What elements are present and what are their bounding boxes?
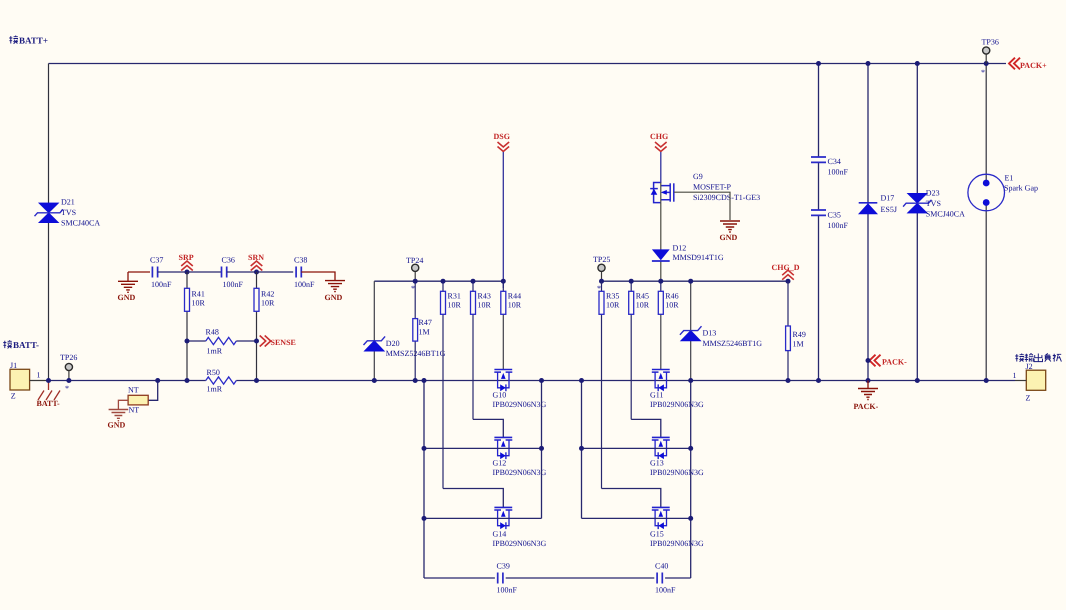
diode D12 MMSD914T1G [660, 203, 662, 282]
ground GND at G9 gate [720, 221, 740, 232]
thermistor NT [148, 381, 157, 401]
svg-text:100nF: 100nF [223, 280, 244, 289]
svg-text:GND: GND [108, 421, 126, 430]
svg-text:IPB029N06N3G: IPB029N06N3G [493, 400, 547, 409]
svg-text:R49: R49 [793, 330, 806, 339]
junction TP26/bus [66, 378, 71, 383]
junction R49/bus [786, 378, 791, 383]
wire: CHG bank right vertical [690, 381, 692, 579]
node PACK- (power symbol) [867, 381, 869, 389]
svg-text:R42: R42 [261, 290, 274, 299]
svg-text:G10: G10 [493, 391, 507, 400]
wire C37 to SRP [158, 271, 187, 273]
junction G13 row left [579, 446, 584, 451]
svg-text:Z: Z [1026, 394, 1031, 403]
diode D17 ES5J [867, 64, 869, 381]
svg-text:GND: GND [325, 293, 343, 302]
resistor R46 10R [660, 281, 662, 291]
junction R41 bottom/bus [185, 378, 190, 383]
junction TP24/rail [413, 279, 418, 284]
svg-text:TP24: TP24 [406, 256, 423, 265]
svg-text:Si2309CDS-T1-GE3: Si2309CDS-T1-GE3 [693, 193, 760, 202]
wire: G12 row [424, 447, 542, 449]
resistor R43 10R [472, 281, 474, 291]
resistor R42 10R [256, 272, 258, 381]
connector J2 [1026, 370, 1045, 390]
svg-text:NT: NT [129, 406, 140, 415]
wire DSG down to gate rail [502, 152, 504, 288]
svg-text:D12: D12 [673, 244, 687, 253]
pin 1 of J1 [30, 380, 49, 382]
junction G12 row right [539, 446, 544, 451]
svg-text:TVS: TVS [61, 208, 76, 217]
svg-text:PACK+: PACK+ [1020, 61, 1047, 70]
svg-text:R31: R31 [448, 292, 461, 301]
capacitor C39 100nF [498, 573, 503, 584]
diode D13 MMSZ5246BT1G zener [690, 281, 692, 380]
svg-text:C39: C39 [497, 562, 510, 571]
svg-text:GND: GND [720, 233, 738, 242]
junction R47/bus [413, 378, 418, 383]
svg-text:C35: C35 [828, 211, 841, 220]
svg-text:GND: GND [118, 293, 136, 302]
wire: DSG gate rail (y=281.2) [374, 280, 503, 282]
svg-text:100nF: 100nF [828, 221, 849, 230]
node PACK- (port) [870, 355, 881, 367]
svg-text:*: * [981, 68, 985, 77]
svg-text:IPB029N06N3G: IPB029N06N3G [493, 468, 547, 477]
svg-text:R48: R48 [206, 328, 219, 337]
connector J1 [10, 369, 30, 390]
svg-text:CHG: CHG [650, 132, 668, 141]
junction DSG-bank source/bus [539, 378, 544, 383]
junction G12 row left [422, 446, 427, 451]
wire: CHG bank left vertical [581, 381, 583, 519]
junction G14 row left [422, 516, 427, 521]
svg-text:PACK-: PACK- [854, 402, 879, 411]
junction CHG-bank drain/bus [579, 378, 584, 383]
diode D23 TVS SMCJ40CA [916, 64, 918, 381]
svg-text:MMSZ5246BT1G: MMSZ5246BT1G [703, 339, 763, 348]
wire C36 to SRN [227, 271, 257, 273]
wire G9 gate to GND [674, 192, 730, 220]
svg-text:1mR: 1mR [207, 385, 223, 394]
capacitor C38 100nF [296, 267, 301, 278]
resistor R47 1M [414, 281, 416, 380]
capacitor C37 100nF [152, 267, 157, 278]
wire: DSG bank right vertical [541, 381, 543, 519]
diode D21 TVS [35, 203, 63, 223]
capacitor C36 100nF [222, 267, 227, 278]
testpoint TP26 [68, 371, 70, 381]
svg-text:Spark Gap: Spark Gap [1004, 184, 1038, 193]
net label 接BATT- [3, 340, 12, 348]
svg-text:*: * [411, 284, 415, 293]
svg-text:R41: R41 [192, 290, 205, 299]
svg-text:10R: 10R [636, 301, 650, 310]
diode D20 MMSZ5246BT1G zener [373, 281, 375, 380]
svg-text:10R: 10R [192, 298, 206, 307]
net label 接BATT+ [9, 36, 18, 44]
svg-text:J2: J2 [1026, 362, 1033, 371]
resistor R50 1mR (in bus) [206, 377, 237, 384]
junction J1/D21/bus [46, 378, 51, 383]
wire: G14 row [424, 517, 542, 519]
svg-text:DSG: DSG [494, 132, 510, 141]
junction at R48 right [254, 339, 259, 344]
svg-text:TVS: TVS [926, 199, 941, 208]
capacitor C35 100nF [811, 210, 826, 215]
node SRP [181, 261, 193, 271]
capacitor C40 100nF [657, 573, 662, 584]
svg-text:R43: R43 [478, 292, 491, 301]
svg-text:IPB029N06N3G: IPB029N06N3G [493, 539, 547, 548]
wire: G15 row [582, 517, 691, 519]
transistor G13 IPB029N06N3G [652, 437, 670, 459]
junction R42/bus [254, 378, 259, 383]
svg-text:SMCJ40CA: SMCJ40CA [926, 210, 965, 219]
svg-text:10R: 10R [448, 301, 462, 310]
resistor R48 1mR (sense) [187, 340, 257, 342]
resistor R35 10R [601, 281, 603, 291]
svg-text:10R: 10R [261, 298, 275, 307]
svg-text:R46: R46 [665, 292, 678, 301]
svg-text:R45: R45 [636, 292, 649, 301]
wire: CHG gate rail (y=281.2) [602, 280, 789, 282]
resistor R49 1M [787, 281, 789, 380]
svg-text:*: * [65, 384, 69, 393]
junction at R48 left [185, 339, 190, 344]
svg-text:1M: 1M [419, 328, 430, 337]
wire: main bus BATT- / PACK- (y=380.5) [49, 380, 1016, 382]
svg-text:C40: C40 [655, 562, 668, 571]
wire R45 to G13 gate [631, 419, 661, 437]
ground GND at NT [118, 400, 128, 409]
svg-text:R44: R44 [508, 292, 521, 301]
wire: DSG bank left vertical [423, 381, 425, 579]
svg-text:TP36: TP36 [982, 38, 999, 47]
svg-text:IPB029N06N3G: IPB029N06N3G [650, 539, 704, 548]
svg-text:100nF: 100nF [828, 168, 849, 177]
resistor R31 10R [442, 281, 444, 291]
svg-text:100nF: 100nF [151, 280, 172, 289]
node SENSE [260, 336, 271, 347]
svg-text:D21: D21 [61, 198, 75, 207]
transistor G10 IPB029N06N3G [494, 370, 512, 392]
wire R43 to G12 gate [473, 419, 503, 437]
svg-text:1: 1 [1013, 371, 1017, 380]
svg-text:Z: Z [11, 392, 16, 401]
testpoint TP25 [601, 272, 603, 282]
svg-text:C37: C37 [150, 256, 163, 265]
svg-text:SMCJ40CA: SMCJ40CA [61, 219, 100, 228]
junction NT/bus [155, 378, 160, 383]
junction DSG-bank drain/bus [422, 378, 427, 383]
resistor R41 10R [186, 272, 188, 381]
svg-text:G9: G9 [693, 172, 703, 181]
svg-text:IPB029N06N3G: IPB029N06N3G [650, 468, 704, 477]
junction G13 row right [688, 446, 693, 451]
wire R35 to G15 gate [602, 489, 661, 508]
svg-text:CHG_D: CHG_D [772, 263, 800, 272]
ground GND left of C37 [127, 272, 129, 281]
ground GND right of C38 [301, 272, 335, 281]
svg-text:NT: NT [128, 386, 139, 395]
svg-text:E1: E1 [1005, 174, 1014, 183]
svg-text:MMSD914T1G: MMSD914T1G [673, 253, 724, 262]
svg-text:100nF: 100nF [294, 280, 315, 289]
svg-text:D13: D13 [703, 329, 717, 338]
svg-text:D17: D17 [881, 194, 895, 203]
node BATT- power symbol [38, 381, 60, 401]
wire: top PACK+ rail [49, 63, 1007, 65]
svg-text:BATT-: BATT- [13, 340, 39, 350]
transistor G14 IPB029N06N3G [494, 507, 512, 529]
svg-text:10R: 10R [478, 301, 492, 310]
svg-text:10R: 10R [508, 301, 522, 310]
wire R31 to G14 gate [443, 489, 503, 508]
transistor G12 IPB029N06N3G [494, 437, 512, 459]
svg-text:G13: G13 [650, 459, 664, 468]
svg-text:SRN: SRN [248, 253, 264, 262]
testpoint TP36 [985, 55, 987, 64]
wire SRN to C38 [257, 271, 294, 273]
svg-text:G12: G12 [493, 459, 507, 468]
transistor G11 IPB029N06N3G [652, 370, 670, 392]
junction G15 row right [688, 516, 693, 521]
node SRN [251, 261, 263, 271]
capacitor C34 100nF [818, 64, 820, 381]
svg-text:10R: 10R [606, 301, 620, 310]
svg-text:D20: D20 [386, 339, 400, 348]
svg-text:MOSFET-P: MOSFET-P [693, 182, 731, 191]
svg-text:1: 1 [37, 371, 41, 380]
wire: G13 row [582, 447, 691, 449]
transistor G15 IPB029N06N3G [652, 507, 670, 529]
svg-text:D23: D23 [926, 189, 940, 198]
svg-text:ES5J: ES5J [881, 205, 897, 214]
resistor R45 10R [630, 281, 632, 291]
svg-text:100nF: 100nF [497, 586, 518, 595]
junction D20/bus [372, 378, 377, 383]
svg-text:BATT+: BATT+ [19, 36, 48, 46]
svg-text:1M: 1M [793, 339, 804, 348]
svg-text:R50: R50 [207, 368, 220, 377]
wire CHG down to G9 [660, 152, 662, 183]
net label 接输出负极 [1015, 354, 1024, 362]
pin 1 of J2 [1015, 380, 1026, 382]
svg-text:SENSE: SENSE [271, 338, 296, 347]
svg-text:G11: G11 [650, 391, 663, 400]
svg-text:PACK-: PACK- [882, 358, 907, 367]
svg-text:J1: J1 [10, 361, 17, 370]
spark gap E1 [985, 64, 987, 381]
svg-text:10R: 10R [665, 301, 679, 310]
svg-text:C38: C38 [294, 256, 307, 265]
wire SRP to C36 [187, 271, 221, 273]
svg-text:100nF: 100nF [655, 586, 676, 595]
svg-text:1mR: 1mR [207, 347, 223, 356]
svg-text:TP26: TP26 [60, 353, 77, 362]
node PACK+ [1009, 58, 1020, 70]
wire: left vertical BATT+ drop to D21 and bus [48, 64, 50, 381]
transistor G9 MOSFET-P Si2309CDS-T1-GE3 [650, 183, 674, 203]
svg-text:R35: R35 [606, 292, 619, 301]
testpoint TP24 [414, 272, 416, 282]
resistor R44 10R [502, 281, 504, 291]
svg-text:G14: G14 [493, 530, 507, 539]
svg-text:C34: C34 [828, 157, 841, 166]
svg-text:BATT-: BATT- [37, 399, 60, 408]
junction CHG-bank source/bus [688, 378, 693, 383]
svg-text:IPB029N06N3G: IPB029N06N3G [650, 400, 704, 409]
svg-text:G15: G15 [650, 530, 664, 539]
svg-text:R47: R47 [419, 318, 432, 327]
svg-text:C36: C36 [222, 256, 235, 265]
wire: snubber bottom rail [424, 577, 691, 579]
svg-text:SRP: SRP [179, 253, 194, 262]
svg-text:TP25: TP25 [593, 255, 610, 264]
